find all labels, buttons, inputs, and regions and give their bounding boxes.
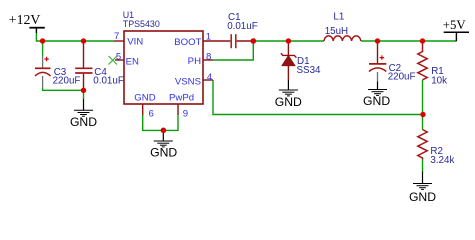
svg-text:PH: PH xyxy=(188,56,201,67)
svg-text:EN: EN xyxy=(126,56,139,67)
svg-text:GND: GND xyxy=(409,190,436,204)
svg-text:TPS5430: TPS5430 xyxy=(123,19,160,29)
svg-text:7: 7 xyxy=(114,31,119,42)
svg-text:GND: GND xyxy=(150,145,177,159)
svg-text:+12V: +12V xyxy=(9,12,41,27)
svg-text:GND: GND xyxy=(134,93,155,104)
svg-text:1: 1 xyxy=(206,32,211,43)
svg-text:SS34: SS34 xyxy=(297,65,322,76)
svg-text:VIN: VIN xyxy=(127,37,143,48)
svg-text:6: 6 xyxy=(149,109,154,120)
svg-text:L1: L1 xyxy=(333,11,344,22)
svg-text:220uF: 220uF xyxy=(388,71,416,82)
svg-text:3.24k: 3.24k xyxy=(430,155,454,166)
svg-text:15uH: 15uH xyxy=(325,26,348,37)
svg-text:5: 5 xyxy=(116,51,121,62)
svg-text:+5V: +5V xyxy=(443,18,467,32)
svg-text:0.01uF: 0.01uF xyxy=(227,21,258,32)
svg-text:4: 4 xyxy=(207,72,213,83)
svg-text:GND: GND xyxy=(70,115,97,129)
svg-text:0.01uF: 0.01uF xyxy=(93,75,124,86)
svg-text:8: 8 xyxy=(206,51,211,62)
svg-text:10k: 10k xyxy=(431,76,447,87)
svg-text:VSNS: VSNS xyxy=(175,76,201,87)
svg-text:9: 9 xyxy=(183,109,188,120)
svg-text:GND: GND xyxy=(363,94,390,108)
svg-text:GND: GND xyxy=(275,95,302,109)
svg-text:PwPd: PwPd xyxy=(169,93,194,104)
svg-text:BOOT: BOOT xyxy=(174,37,201,48)
svg-text:220uF: 220uF xyxy=(53,75,81,86)
